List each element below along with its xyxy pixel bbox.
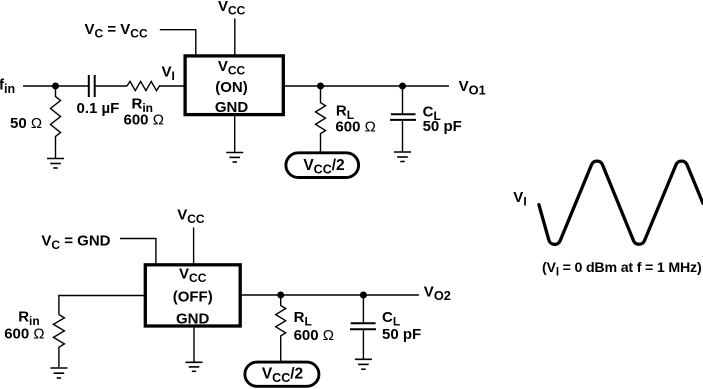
svg-text:VC = VCC: VC = VCC [85, 21, 148, 41]
ground GND4 (Rin2) [50, 368, 67, 378]
svg-text:600 Ω: 600 Ω [4, 326, 44, 343]
svg-text:VCC: VCC [218, 0, 246, 18]
capacitor CL1 50 pF [390, 86, 416, 152]
ground GND2 (CL1) [394, 152, 411, 162]
svg-text:GND: GND [176, 311, 210, 328]
wire box1 output [285, 85, 449, 87]
capacitor C1 0.1uF [89, 75, 95, 97]
waveform VI triangle wave [539, 161, 703, 244]
resistor Rin 600 ohm top [127, 81, 160, 90]
junction node out2b [360, 292, 367, 299]
svg-text:(VI = 0 dBm at f = 1 MHz): (VI = 0 dBm at f = 1 MHz) [542, 260, 702, 279]
wire VC control to box1 [160, 30, 196, 55]
wire VCC to box1 [234, 19, 236, 55]
svg-text:VC = GND: VC = GND [41, 233, 110, 253]
svg-text:600 Ω: 600 Ω [294, 327, 334, 344]
junction node out2a [277, 292, 284, 299]
svg-text:50 pF: 50 pF [423, 118, 462, 135]
resistor RL2 600 ohm [276, 295, 286, 361]
resistor RL1 600 ohm [316, 86, 326, 152]
switch box U1 (ON) [185, 56, 283, 115]
svg-text:VCC: VCC [177, 207, 205, 227]
svg-text:0.1 µF: 0.1 µF [77, 100, 120, 117]
svg-text:RL: RL [294, 309, 312, 329]
capacitor CL2 50 pF [350, 295, 376, 359]
svg-text:50 Ω: 50 Ω [10, 115, 42, 132]
ground GND5 (box2) [186, 362, 203, 371]
svg-text:VO2: VO2 [424, 284, 451, 304]
source VCC/2 oval bottom [245, 362, 319, 386]
svg-text:50 pF: 50 pF [382, 326, 421, 343]
wire box1 GND down [234, 116, 236, 152]
junction node out1b [399, 83, 406, 90]
ground GND1 (50 ohm) [47, 159, 64, 169]
wire resistor to box [159, 85, 185, 87]
switch box U2 (OFF) [145, 265, 240, 326]
svg-text:VO1: VO1 [459, 78, 486, 98]
wire box2 GND down [193, 328, 195, 362]
svg-text:VI: VI [513, 189, 526, 209]
svg-text:fin: fin [0, 77, 15, 97]
svg-text:GND: GND [215, 99, 249, 116]
svg-text:600 Ω: 600 Ω [124, 112, 164, 129]
source VCC/2 oval top [286, 153, 359, 178]
svg-text:VI: VI [162, 64, 175, 84]
junction input node [52, 83, 59, 90]
svg-text:(ON): (ON) [215, 79, 248, 96]
junction node out1a [317, 83, 324, 90]
wire VCC to box2 [193, 228, 195, 265]
wire cap to resistor [95, 85, 127, 87]
svg-text:(OFF): (OFF) [173, 289, 213, 306]
resistor R 50 ohm [51, 86, 61, 158]
ground GND6 (CL2) [355, 359, 372, 369]
wire box2 output [242, 294, 419, 296]
resistor Rin2 600 ohm [53, 315, 64, 368]
wire input fin [23, 85, 89, 87]
svg-text:600 Ω: 600 Ω [335, 119, 375, 136]
wire box2 input left [59, 296, 145, 315]
ground GND3 (box1) [226, 153, 243, 163]
wire VC control to box2 [120, 239, 156, 265]
